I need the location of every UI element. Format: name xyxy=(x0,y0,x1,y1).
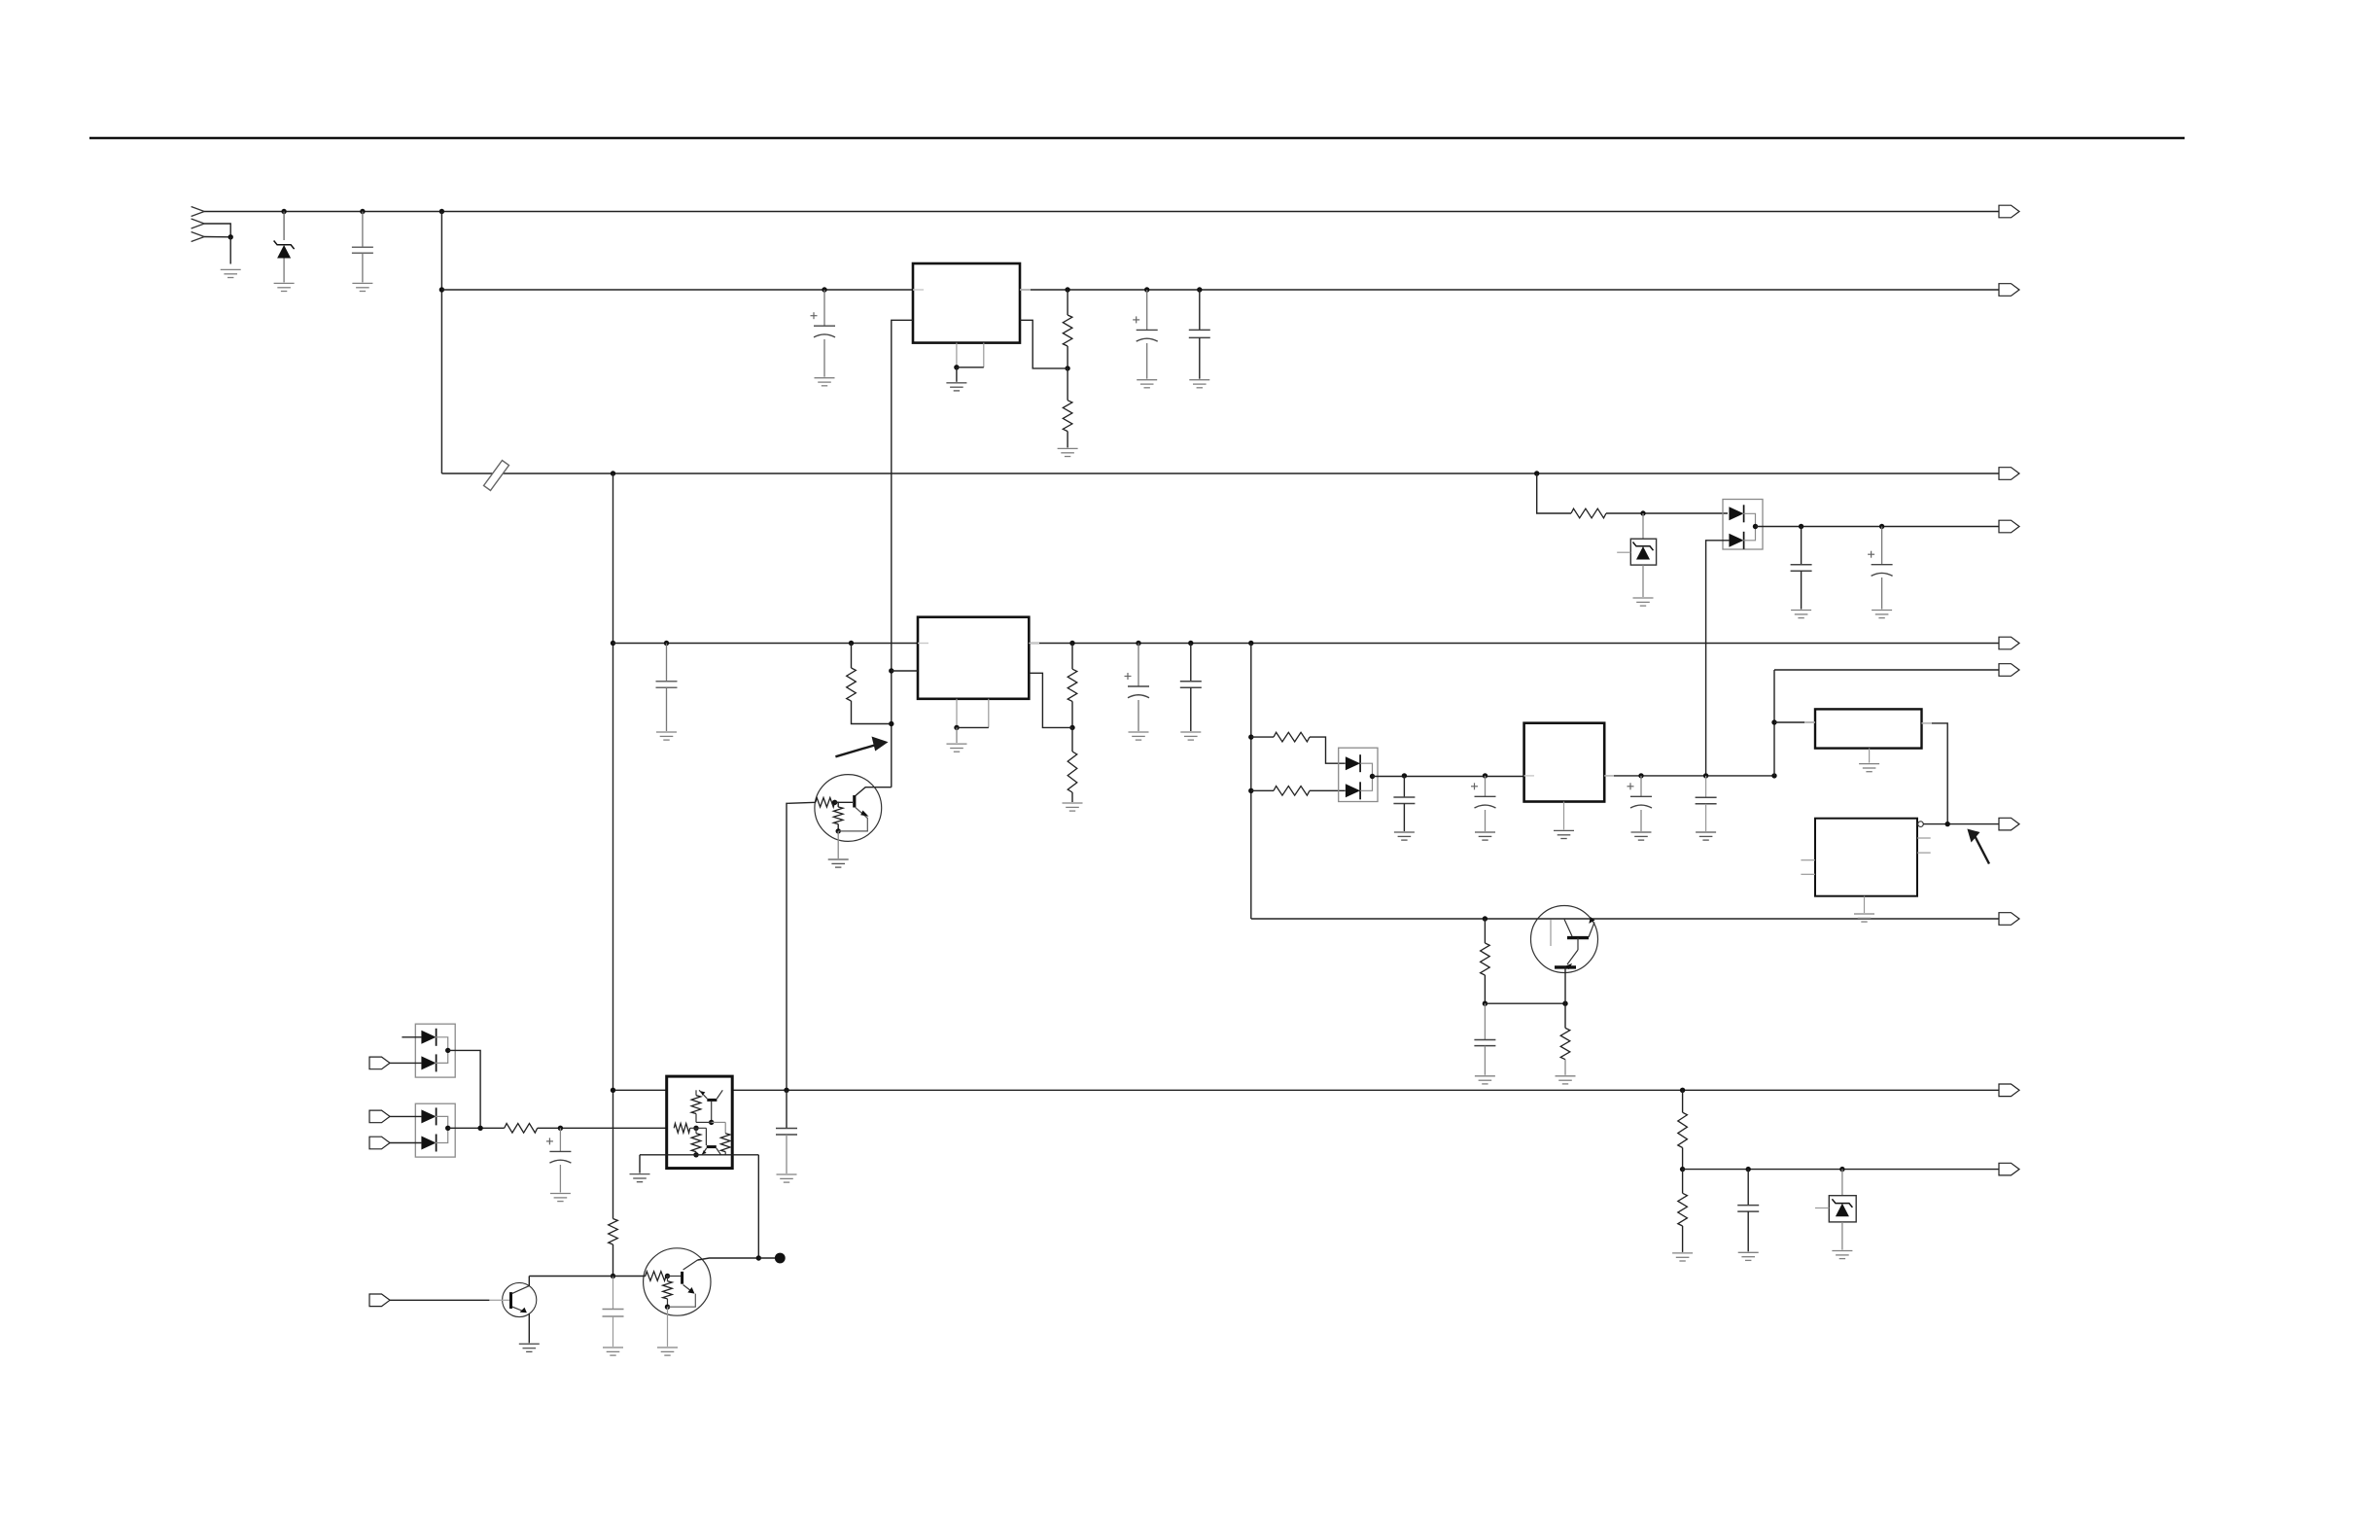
junction J1-2/J1-3 xyxy=(228,234,233,239)
junction D6 output xyxy=(1370,774,1375,779)
junction R5/R6/U2 fb xyxy=(1069,725,1074,730)
wire R6 bottom xyxy=(1071,792,1073,802)
junction U3 out / C17 / D2b net xyxy=(1703,773,1708,778)
ground G8 xyxy=(1189,380,1209,388)
wire C4 top xyxy=(1199,290,1201,330)
wire Q2 base row xyxy=(787,802,815,803)
wire C7 bottom xyxy=(666,687,668,731)
ground G2 xyxy=(274,283,295,291)
wire R9 bottom xyxy=(1484,975,1486,1003)
junction R12 / Q5 / Q6 row xyxy=(611,1274,615,1278)
wire J5 to Q5 base xyxy=(390,1299,490,1301)
test point TP1 xyxy=(775,1253,786,1264)
capacitor C12 electrolytic xyxy=(546,1137,572,1163)
wire Q5 base stub xyxy=(489,1299,509,1301)
wire D4 common cathode xyxy=(435,1037,447,1064)
connector output U5 xyxy=(1999,818,2019,830)
transistor Q3 bar 2 xyxy=(1555,965,1576,968)
wire C10 bottom xyxy=(1484,1046,1486,1075)
resistor U6 Rd xyxy=(691,1134,701,1152)
ground G7 xyxy=(1137,380,1157,388)
ground G24 xyxy=(1556,1076,1576,1084)
junction bus D / R4 xyxy=(849,641,854,646)
junction trunk / bus B xyxy=(439,287,444,292)
ground G3 xyxy=(352,283,372,291)
resistor R7 (Q2 base) xyxy=(816,798,835,808)
connector output bus B xyxy=(1999,284,2019,297)
junction bus G / C18 xyxy=(1746,1167,1751,1172)
transistor Q6 collector xyxy=(683,1260,698,1270)
wire Q2 base link xyxy=(835,801,853,803)
wire U6 Ra join xyxy=(696,1121,712,1123)
junction key row / D4 branch xyxy=(477,1126,482,1131)
capacitor C17 xyxy=(1696,797,1717,804)
wire U5 output xyxy=(1923,823,1999,825)
pin stub U2 bottom 1 xyxy=(956,699,958,728)
junction R4 / net917 xyxy=(889,721,893,726)
wire C8 top xyxy=(1137,644,1139,687)
transistor U6 Qa bar xyxy=(707,1099,717,1102)
wire D7 bottom xyxy=(1841,1222,1843,1250)
connector J1 pin 3 chevron xyxy=(192,232,205,242)
diode pack D4 outline xyxy=(415,1024,455,1077)
junction R9 / C10 / Q3e xyxy=(1483,1001,1487,1006)
resistor R13 xyxy=(1678,1112,1688,1147)
wire R10 top xyxy=(1564,1003,1566,1028)
ground G10 xyxy=(1791,611,1811,618)
resistor R1 xyxy=(1063,315,1072,346)
transistor array U6 xyxy=(667,1076,733,1169)
zener diode D7 (in box) xyxy=(1829,1196,1856,1222)
connector J1 pin 2 chevron xyxy=(192,219,205,228)
wire D7 top xyxy=(1841,1170,1843,1196)
connector output bus G xyxy=(1999,1163,2019,1175)
pin stub U3 input xyxy=(1524,775,1534,777)
junction bus B / C2 xyxy=(822,287,826,292)
wire trunk2 vertical xyxy=(1250,644,1252,920)
wire C6 top xyxy=(1881,527,1883,565)
pin stub U2 output xyxy=(1029,643,1039,645)
transistor U6 Qa collector xyxy=(711,1102,713,1123)
diode pack D2 outline xyxy=(1723,500,1763,550)
wire U1 ground pin join xyxy=(957,367,984,368)
wire C9 bottom xyxy=(1190,687,1192,731)
transistor Q5 circle xyxy=(503,1282,537,1316)
ground G27 xyxy=(550,1194,571,1202)
pin stub U1 input xyxy=(913,289,924,291)
wire C1 bottom to ground xyxy=(362,253,364,282)
capacitor C18 xyxy=(1737,1206,1759,1212)
wire C12 top xyxy=(559,1128,561,1151)
ground G31 (Q5) xyxy=(519,1344,540,1351)
transistor U6 Qa diagonals xyxy=(699,1090,707,1099)
wire C14 bottom xyxy=(1403,804,1405,832)
junction U2 left pin / net917 xyxy=(889,668,893,673)
transistor U6 Qb bar xyxy=(707,1145,717,1148)
wire Q2 emitter to ground xyxy=(837,831,839,858)
resistor R8 (Q2 b-e) xyxy=(833,807,843,824)
wire R18 bottom xyxy=(1682,1226,1684,1252)
wire U6 internal link xyxy=(712,1121,726,1123)
diode D2a xyxy=(1729,507,1743,520)
junction net1825 / U4 xyxy=(1771,719,1776,724)
wire R3 branch xyxy=(1537,473,1571,513)
ground G30 (D7) xyxy=(1832,1251,1852,1259)
pin stub U5 left 2 xyxy=(1801,873,1815,875)
junction trunk2 / R16 xyxy=(1248,734,1253,739)
wire U2 feedback xyxy=(1029,673,1072,727)
diode D4b xyxy=(421,1056,436,1069)
wire R9 top xyxy=(1484,919,1486,943)
regulator U1 xyxy=(913,263,1020,343)
annotation arrow 1 xyxy=(872,737,889,752)
diode D6a xyxy=(1346,756,1360,770)
wire C12 bottom xyxy=(559,1165,561,1193)
ground G22 (U5) xyxy=(1854,914,1874,922)
ground G4 xyxy=(815,378,835,386)
wire C4 bottom xyxy=(1199,337,1201,378)
U6 Rd stub xyxy=(695,1128,697,1133)
capacitor C4 xyxy=(1189,330,1210,337)
resistor U6 Ra xyxy=(691,1096,701,1114)
wire Q5 collector up xyxy=(528,1277,530,1286)
wire C9 top xyxy=(1190,644,1192,682)
zener diode D3 (in box) xyxy=(1630,539,1656,565)
wire U6 Qb base link xyxy=(690,1127,707,1129)
pin stub U4 right xyxy=(1922,722,1933,724)
pin stub U4 gnd xyxy=(1869,749,1871,763)
wire Q5 emitter down xyxy=(528,1313,530,1343)
capacitor C7 xyxy=(656,682,678,688)
diode pack D6 outline xyxy=(1339,748,1378,801)
wire U1 feedback xyxy=(1020,320,1067,368)
wire bus F xyxy=(613,1089,2000,1091)
wire C15 bottom xyxy=(1485,810,1487,831)
wire R5 top xyxy=(1071,644,1073,670)
transistor Q3 inter link xyxy=(1577,938,1579,950)
resistor R2 xyxy=(1063,401,1072,432)
wire Q6 emitter to ground xyxy=(667,1307,669,1347)
junction bus A / D1 xyxy=(281,209,286,214)
wire R4 top xyxy=(851,644,853,669)
transistor Q6 circle xyxy=(644,1248,711,1315)
diode D2b xyxy=(1729,534,1743,547)
transistor U6 Qb diagonals xyxy=(702,1148,707,1155)
resistor R16 xyxy=(1274,732,1310,742)
ground G23 xyxy=(1475,1076,1495,1084)
junction bus F / Q2-base net xyxy=(784,1088,788,1093)
pin stub U1 output xyxy=(1020,289,1031,291)
transistor Q5 emitter diag xyxy=(512,1307,526,1312)
diode pack D5 outline xyxy=(415,1103,455,1157)
wire C15 top xyxy=(1485,776,1487,796)
pin stub U2 bottom 2 xyxy=(988,699,990,728)
U6 Ra stub xyxy=(695,1090,697,1095)
wire net1825 to arrow xyxy=(1774,669,1999,671)
junction bus D / trunk2 xyxy=(1248,641,1253,646)
capacitor C6 electrolytic xyxy=(1868,551,1893,577)
junction U6 rail/Rd xyxy=(693,1152,698,1157)
wire C16 top xyxy=(1640,776,1642,796)
connector output bus E xyxy=(1999,913,2019,926)
wire R6 top xyxy=(1071,727,1073,752)
pin stub U1 bottom pin 1 xyxy=(956,343,958,367)
wire U1 gnd xyxy=(956,367,958,382)
resistor R10 xyxy=(1560,1028,1570,1059)
wire R18 top xyxy=(1682,1170,1684,1194)
junction D5 output xyxy=(445,1126,450,1131)
capacitor C15 electrolytic xyxy=(1471,783,1496,808)
ground G5 (U1) xyxy=(946,383,966,391)
wire trunk vertical xyxy=(440,212,442,474)
U6 Rc stub xyxy=(724,1152,726,1155)
connector output bus D xyxy=(1999,637,2019,649)
diode D4a xyxy=(421,1031,436,1044)
wire J3 to D5a xyxy=(390,1115,423,1117)
junction Q2 base node xyxy=(832,800,837,805)
resistor R18 xyxy=(1678,1193,1688,1226)
transistor Q6 base bar xyxy=(681,1272,683,1284)
ground G18 (U3) xyxy=(1554,830,1574,838)
wire D1 anode to ground xyxy=(283,259,285,283)
junction U3 out / vert1825 xyxy=(1771,773,1776,778)
diode D5b xyxy=(421,1137,436,1150)
ground G12 (U2) xyxy=(947,744,967,752)
regulator U3 xyxy=(1524,723,1605,802)
wire R1 top xyxy=(1067,290,1068,315)
wire D3 top xyxy=(1642,513,1644,539)
diode D6b xyxy=(1346,784,1360,797)
resistor U6 Rc xyxy=(720,1134,730,1152)
junction bus D / C8 xyxy=(1136,641,1140,646)
R15 stubs xyxy=(667,1277,669,1281)
wire U4 right pin xyxy=(1922,723,1948,824)
wire R13 bottom xyxy=(1682,1148,1684,1170)
junction bus G start xyxy=(1680,1167,1685,1172)
resistor R4 xyxy=(847,668,857,701)
wire C11 bottom xyxy=(786,1135,787,1173)
wire D2 common cathode xyxy=(1742,513,1755,541)
capacitor C14 xyxy=(1393,797,1415,804)
ground G1 xyxy=(221,269,241,277)
wire J2 to D4b xyxy=(390,1062,423,1064)
wire D6 output to U3 xyxy=(1373,776,1524,778)
block U5 xyxy=(1815,819,1917,896)
junction Q6 base node xyxy=(665,1274,670,1278)
wire D4 output xyxy=(448,1050,480,1128)
pin stub U5 left 1 xyxy=(1801,859,1815,861)
ground G29 xyxy=(1738,1252,1759,1260)
junction D2 rail / C5 xyxy=(1799,524,1803,529)
transistor Q5 collector diag xyxy=(512,1286,530,1294)
wire R8 bottom xyxy=(837,824,839,831)
transistor Q3 diag in xyxy=(1564,920,1572,937)
resistor R15 (Q6 b-e) xyxy=(663,1281,673,1299)
junction bus C / vert-631 xyxy=(611,471,615,475)
junction Q2 emitter node xyxy=(836,828,841,833)
junction bus E / R9 xyxy=(1483,916,1487,921)
ground G34 (Q2) xyxy=(828,859,849,867)
wire U2 gnd join xyxy=(957,726,989,728)
transistor Q3 circle xyxy=(1531,906,1598,973)
ground G14 xyxy=(1129,732,1149,740)
wire D5 common cathode xyxy=(435,1116,447,1142)
junction bus D / C7 xyxy=(664,641,669,646)
connector output D2 rail xyxy=(1999,520,2019,533)
wire Q2 collector xyxy=(856,787,892,796)
junction D2 rail / C6 xyxy=(1879,524,1884,529)
wire D2b anode xyxy=(1706,541,1730,776)
resistor R11 xyxy=(505,1124,538,1134)
transistor Q2 emitter xyxy=(838,808,867,831)
ground G33 xyxy=(603,1347,623,1355)
connector output bus A xyxy=(1999,205,2019,218)
wire R12 bottom xyxy=(612,1244,614,1277)
junction key row / C12 xyxy=(558,1126,563,1131)
ground G25 xyxy=(630,1174,650,1182)
wire D6 common cathode xyxy=(1360,763,1372,790)
wire J1-2 to ground net xyxy=(204,224,230,237)
wire R17 lead xyxy=(1251,789,1274,791)
wire U6 rail to ground xyxy=(639,1155,641,1173)
block U4 xyxy=(1815,709,1922,748)
connector J1 pin 1 chevron xyxy=(192,207,205,217)
wire to ground G1 xyxy=(229,237,231,264)
wire U2 gnd xyxy=(956,727,958,743)
pin stub U3 output xyxy=(1604,775,1614,777)
wire Q6 collector to node xyxy=(698,1258,759,1260)
capacitor C9 xyxy=(1180,682,1202,688)
capacitor C16 electrolytic xyxy=(1627,783,1653,808)
capacitor C11 xyxy=(776,1129,797,1136)
junction net631 / bus D xyxy=(611,641,615,646)
zener diode D1 xyxy=(277,245,291,259)
capacitor C8 electrolytic xyxy=(1125,673,1150,698)
capacitor C13 xyxy=(603,1310,624,1317)
wire Q5 collector row xyxy=(529,1276,612,1277)
wire to test point xyxy=(758,1257,775,1259)
wire C1 top xyxy=(362,212,364,248)
ground G20 xyxy=(1696,832,1716,840)
title rule xyxy=(89,137,2185,140)
connector input J3 xyxy=(369,1110,390,1123)
junction R1/R2/U1 fb xyxy=(1065,366,1069,370)
resistor R17 xyxy=(1274,787,1310,796)
resistor R3 xyxy=(1571,508,1606,518)
U5 output bubble xyxy=(1918,822,1924,827)
pin stub U2 input xyxy=(918,643,928,645)
ground G19 xyxy=(1631,832,1652,840)
junction bus F / R13 divider xyxy=(1680,1088,1685,1093)
wire C11 top xyxy=(786,1090,787,1128)
pin stub U4 left xyxy=(1804,721,1815,723)
junction Q6 / U6 drop xyxy=(756,1255,761,1260)
regulator U2 xyxy=(918,617,1029,699)
transistor Q3 bar 1 xyxy=(1567,936,1589,939)
wire U4 left pin xyxy=(1774,721,1815,723)
wire bus D U2 output rail xyxy=(1029,643,1999,645)
wire bus E xyxy=(1251,918,1999,920)
diode D5a xyxy=(421,1109,436,1123)
resistor U6 Rb xyxy=(674,1124,689,1134)
resistor R12 xyxy=(609,1219,618,1245)
annotation arrow 2 xyxy=(1967,829,1979,843)
ground G13 xyxy=(1063,803,1083,811)
ground G28 xyxy=(1672,1253,1693,1261)
wire D1 cathode xyxy=(283,212,285,241)
ground G11 xyxy=(1872,611,1892,618)
wire C13 top xyxy=(612,1277,614,1310)
capacitor C1 xyxy=(352,247,373,253)
junction bus D / R5 xyxy=(1069,641,1074,646)
ground G17 xyxy=(1475,832,1495,840)
wire J4 to D5b xyxy=(390,1142,423,1144)
wire C13 bottom xyxy=(612,1316,614,1347)
pin stub U5 right 2 xyxy=(1917,852,1931,854)
junction U1 ground pins xyxy=(954,365,959,369)
wire key sense row xyxy=(448,1127,505,1129)
wire vertical net631 xyxy=(612,473,614,1219)
junction U3 out / C16 xyxy=(1638,773,1643,778)
wire U3 output xyxy=(1604,775,1774,777)
ground G21 (U4) xyxy=(1859,764,1879,772)
pin stub D7 left xyxy=(1815,1207,1829,1209)
wire C2 bottom to ground xyxy=(823,339,825,377)
junction D2 output xyxy=(1753,524,1758,529)
wire C14 top xyxy=(1403,776,1405,797)
wire bus G xyxy=(1683,1169,1999,1171)
transistor Q2 circle xyxy=(815,775,882,842)
wire R13 top xyxy=(1682,1090,1684,1112)
capacitor C3 electrolytic xyxy=(1133,316,1158,341)
junction U6 internal a xyxy=(709,1120,714,1125)
wire bus C switched rail xyxy=(441,472,1999,474)
wire R8 top xyxy=(835,802,839,807)
wire bus B to U1 input xyxy=(441,289,913,291)
wire Q6 input row xyxy=(613,1276,646,1277)
connector output bus F xyxy=(1999,1084,2019,1097)
ground G15 xyxy=(1180,732,1201,740)
wire Q2 base net drop xyxy=(787,803,787,1090)
wire R10 bottom xyxy=(1564,1060,1566,1075)
wire C2 top xyxy=(823,290,825,326)
resistor R6 xyxy=(1067,752,1077,792)
junction U5 out / U4 net xyxy=(1945,822,1950,826)
wire R1 bottom xyxy=(1067,346,1068,368)
junction R3/D3 xyxy=(1640,510,1645,515)
ground G16 xyxy=(1394,832,1415,840)
wire C17 top xyxy=(1705,776,1707,797)
wire C3 top xyxy=(1146,290,1148,330)
junction bus B / C4 xyxy=(1197,287,1202,292)
wire R5 bottom xyxy=(1071,701,1073,727)
wire C7 top xyxy=(666,644,668,682)
junction U3 in / C14 xyxy=(1402,773,1407,778)
capacitor C2 electrolytic xyxy=(811,312,836,337)
wire C8 bottom xyxy=(1137,700,1139,731)
junction bus D / C9 xyxy=(1188,641,1193,646)
wire C10 top xyxy=(1484,1003,1486,1039)
wire D3 bottom xyxy=(1642,565,1644,597)
connector output U3 net xyxy=(1999,664,2019,677)
junction net631 / bus F xyxy=(611,1088,615,1093)
wire C5 bottom xyxy=(1801,571,1802,609)
junction U3 in / C15 xyxy=(1483,773,1487,778)
wire C18 bottom xyxy=(1747,1211,1749,1251)
wire R17 to D6b xyxy=(1310,789,1346,791)
junction bus B / C3 xyxy=(1144,287,1149,292)
wire J1-3 to ground net xyxy=(204,236,230,238)
